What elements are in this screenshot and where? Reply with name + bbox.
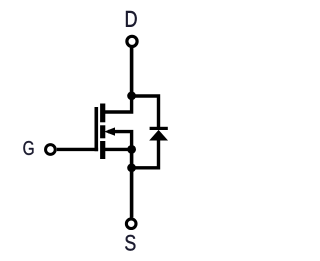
diode D1 cathode bar (150, 127, 168, 130)
terminal G (46, 145, 56, 155)
transistor Q1 channel middle bar (body) (100, 125, 105, 138)
node drain junction (127, 91, 136, 100)
wire gate horizontal (57, 148, 98, 151)
diode D1 anode triangle (149, 130, 168, 141)
transistor Q1 channel bottom bar (source) (100, 141, 105, 159)
node diode return junction (127, 163, 136, 172)
terminal D (127, 36, 137, 46)
wire body connection (104, 132, 132, 150)
wire diode branch bottom (132, 140, 159, 168)
wire drain vertical (130, 48, 134, 96)
wire diode branch top (132, 96, 159, 127)
node S label (125, 235, 135, 251)
node source junction (127, 145, 136, 154)
node G label (23, 141, 33, 155)
transistor Q1 gate electrode line (95, 107, 99, 151)
arrow into body (N-channel) (104, 127, 115, 135)
terminal S (126, 219, 136, 229)
wire source vertical (130, 149, 134, 217)
node D label (126, 11, 137, 27)
wire drain to top channel bar (104, 96, 132, 112)
transistor Q1 channel top bar (drain) (100, 104, 105, 123)
